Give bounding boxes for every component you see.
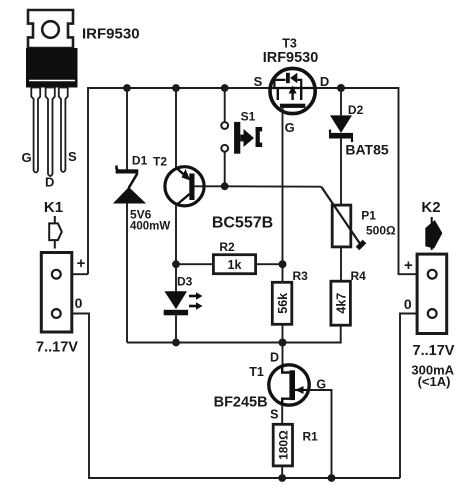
svg-text:R2: R2	[219, 240, 235, 254]
node: top rail / D1 junction	[123, 84, 131, 92]
svg-text:K2: K2	[421, 199, 440, 216]
svg-text:BAT85: BAT85	[345, 142, 389, 158]
svg-text:+: +	[404, 257, 413, 274]
svg-text:S1: S1	[241, 110, 256, 124]
svg-text:0: 0	[404, 296, 412, 312]
svg-text:500Ω: 500Ω	[366, 224, 396, 238]
connector K1 body	[41, 253, 72, 333]
svg-text:1k: 1k	[228, 258, 242, 272]
transistor T2 BC557B	[165, 88, 225, 264]
schottky diode D2 BAT85	[329, 88, 353, 205]
svg-text:IRF9530: IRF9530	[82, 26, 140, 43]
T2 base wire to P1 wiper	[225, 185, 322, 187]
svg-text:D: D	[320, 74, 329, 89]
svg-text:400mW: 400mW	[130, 221, 170, 233]
connector K2 arrow	[426, 217, 441, 250]
wire: lower node rail (D1/D3/R3 bottoms)	[127, 342, 283, 344]
node: top rail / S1 junction	[221, 84, 229, 92]
svg-text:D2: D2	[348, 103, 364, 117]
svg-text:T2: T2	[153, 155, 167, 169]
wire: T1 gate return to bottom rail	[309, 390, 332, 478]
svg-text:R3: R3	[293, 269, 309, 283]
svg-text:S: S	[68, 149, 77, 164]
svg-text:180Ω: 180Ω	[276, 430, 290, 460]
svg-text:S: S	[254, 74, 263, 89]
TO-220 leg G	[31, 88, 40, 173]
svg-text:(<1A): (<1A)	[418, 374, 451, 389]
resistor R4	[283, 281, 351, 342]
svg-text:IRF9530: IRF9530	[263, 50, 319, 66]
wire: K1 zero lead down to bottom rail	[72, 314, 400, 479]
svg-text:56k: 56k	[276, 293, 290, 314]
svg-text:G: G	[21, 150, 31, 165]
svg-text:7..17V: 7..17V	[413, 343, 455, 359]
connector K1 arrow	[49, 216, 62, 249]
svg-text:+: +	[77, 255, 86, 272]
TO-220 package tab	[28, 10, 73, 48]
node: R3 bottom / T1 drain junction	[279, 339, 287, 347]
LED D3	[164, 264, 203, 342]
node: gate return bottom junction	[328, 474, 336, 482]
svg-text:D1: D1	[132, 154, 148, 168]
JFET T1 BF245B	[269, 343, 309, 425]
svg-text:T3: T3	[282, 37, 297, 51]
wire: K2 zero lead	[400, 314, 417, 479]
zener diode D1	[113, 88, 146, 343]
svg-text:0: 0	[75, 295, 83, 311]
svg-text:T1: T1	[249, 365, 264, 379]
svg-text:R1: R1	[303, 430, 319, 444]
svg-text:D3: D3	[177, 275, 193, 289]
TO-220 mounting hole	[42, 21, 59, 38]
svg-text:D: D	[270, 351, 279, 365]
TO-220 leg S	[59, 88, 68, 173]
TO-220 leg D	[46, 88, 55, 177]
connector K1 terminal 0	[52, 309, 61, 318]
svg-text:7..17V: 7..17V	[36, 340, 78, 356]
connector K2 terminal +	[428, 270, 437, 279]
resistor R1	[273, 424, 292, 478]
TO-220 body	[26, 48, 78, 88]
svg-text:G: G	[285, 120, 295, 135]
svg-text:S: S	[270, 408, 278, 422]
node: D3 bottom junction	[172, 339, 180, 347]
pushbutton S1	[221, 88, 262, 186]
connector K2 terminal 0	[428, 309, 437, 318]
node: R2 right / R3 top / T3 gate junction	[279, 260, 287, 268]
svg-text:K1: K1	[44, 199, 63, 216]
svg-text:BF245B: BF245B	[214, 395, 268, 411]
node: R1 bottom junction	[278, 474, 286, 482]
wire: top rail left segment (K1+ rail to T3 source)	[88, 88, 269, 274]
node: top rail / T2 emitter junction	[172, 84, 180, 92]
svg-text:P1: P1	[361, 209, 376, 223]
node: S1/T2 base junction	[221, 182, 229, 190]
wire: top rail right segment (T3 drain to K2+)	[317, 88, 417, 274]
TO-220 body stripe	[29, 80, 75, 82]
svg-text:D: D	[45, 175, 54, 190]
connector K2 body	[417, 254, 447, 333]
connector K1 terminal +	[52, 270, 61, 279]
node: R2 left / T2 collector junction	[172, 260, 180, 268]
resistor R2	[176, 255, 283, 274]
node: top rail / D2 junction	[337, 84, 345, 92]
svg-text:5V6: 5V6	[130, 208, 152, 222]
svg-text:R4: R4	[351, 269, 367, 283]
resistor R3	[272, 264, 292, 342]
trimmer P1	[321, 187, 364, 282]
svg-text:BC557B: BC557B	[212, 215, 273, 232]
svg-text:4k7: 4k7	[334, 293, 348, 314]
wire: K1 plus lead	[72, 273, 88, 275]
MOSFET T3 IRF9530	[269, 68, 316, 264]
